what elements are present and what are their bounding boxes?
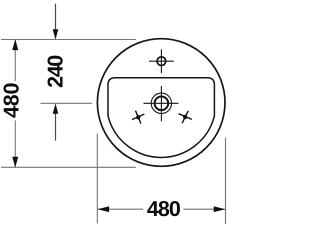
bottom 480 extension line left (96, 134, 98, 224)
svg-text:240: 240 (43, 55, 67, 88)
left alternate tap hole mark (132, 111, 144, 124)
svg-text:480: 480 (0, 83, 24, 118)
faucet hole circle (157, 57, 166, 66)
bottom 480 right arrow (214, 206, 226, 212)
240 top arrow (pointing down) (53, 29, 59, 40)
bottom 480 dimension line right segment (184, 208, 226, 210)
drain crosshair horizontal (144, 102, 179, 104)
svg-text:480: 480 (147, 197, 181, 221)
basin outer rim circle (97, 39, 225, 167)
faucet hole crosshair horizontal (149, 60, 174, 62)
right alternate tap hole mark (179, 111, 192, 123)
240 bottom arrow stem (55, 114, 57, 141)
drain outer circle (151, 93, 171, 113)
top extension line (1, 39, 136, 41)
drain crosshair vertical (160, 86, 162, 121)
bottom-left extension line (circle bottom tangent) (1, 166, 136, 168)
faucet hole crosshair vertical (160, 49, 162, 73)
left 480 top arrow (12, 39, 18, 50)
left 480 dimension line lower segment (14, 120, 16, 167)
240 bottom arrow (pointing up) (53, 104, 59, 114)
bottom 480 left arrow (98, 206, 110, 212)
basin inner bowl outline (108, 78, 214, 158)
left 480 bottom arrow (12, 157, 18, 168)
drain inner circle (155, 97, 169, 111)
bottom 480 dimension line left segment (97, 208, 143, 210)
240 top arrow stem (55, 4, 57, 30)
left 480 dimension line upper segment (14, 40, 16, 81)
mid extension line for 240 (41, 102, 92, 104)
bottom 480 extension line right (225, 138, 227, 225)
